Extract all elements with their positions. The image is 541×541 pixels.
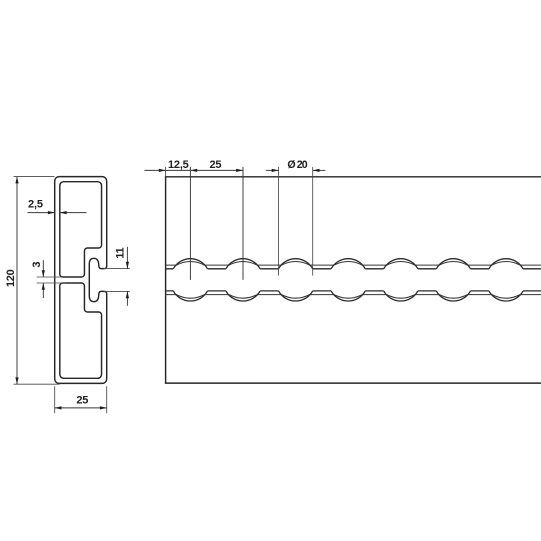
dimension 3 extension lines [37, 276, 62, 278]
dimension 2,5 left line and arrow [28, 212, 55, 214]
side view bar top edge [166, 176, 541, 178]
svg-text:Ø 20: Ø 20 [287, 159, 307, 171]
hole 2 arcs [226, 259, 260, 269]
side view bar left edge [165, 177, 167, 383]
dimension 2,5 right line and arrow [60, 212, 87, 214]
dimension 25 bottom arrow left [55, 406, 62, 409]
dimension 3 lower stem and arrow [42, 283, 44, 298]
top dimension line 12,5 and 25 [144, 169, 243, 171]
slot lower inner line y=294.6 [166, 294, 541, 296]
side view bar bottom edge [166, 382, 541, 384]
hole 7 arcs [489, 259, 523, 269]
hole 3 arcs [279, 259, 313, 269]
svg-text:25: 25 [76, 394, 88, 406]
dimension 120 line [16, 177, 18, 385]
dimension 11 upper stem and arrow [126, 247, 128, 269]
hole 6 arcs [436, 259, 470, 269]
hole 1 arcs [173, 259, 207, 269]
lower chamber cavity [60, 283, 102, 378]
svg-text:25: 25 [209, 159, 221, 171]
hole 1 centerline [189, 167, 191, 280]
svg-text:2,5: 2,5 [28, 199, 43, 211]
dimension 25 bottom line [55, 407, 107, 409]
hole 5 arcs [384, 259, 418, 269]
svg-text:11: 11 [115, 248, 127, 259]
dimension 120 extension line bottom [14, 383, 60, 385]
diameter 20 dimension left segment and arrow [266, 169, 279, 171]
svg-text:12,5: 12,5 [168, 159, 189, 171]
profile cross-section outer contour with T-slot [55, 177, 107, 384]
hole 4 arcs [331, 259, 365, 269]
slot upper mouth line y=268.8 [166, 268, 541, 270]
dimension 11 extension lines [104, 268, 130, 270]
dimension 11 lower stem and arrow [126, 291, 128, 305]
svg-text:3: 3 [31, 262, 43, 268]
dimension 25 bottom arrow right [100, 406, 107, 409]
upper chamber cavity [60, 182, 102, 277]
arrow right at bar edge [159, 169, 166, 172]
hole 2 centerline [242, 167, 244, 280]
dimension 120 arrow up [15, 177, 18, 184]
diameter 20 extension lines [278, 167, 280, 276]
diameter 20 dimension right segment and arrow [313, 169, 326, 171]
arrow left at centerline 1 [190, 169, 197, 172]
slot lower mouth line y=290.9 [166, 290, 541, 292]
dimension 120 extension line top [14, 176, 55, 178]
dimension 120 arrow down [15, 377, 18, 384]
arrow right at centerline 2 [236, 169, 243, 172]
slot upper inner line y=265.1 [166, 264, 541, 266]
dimension 3 upper stem and arrow [42, 260, 44, 277]
dimension 25 bottom extension lines [54, 386, 56, 413]
svg-text:120: 120 [5, 269, 17, 287]
